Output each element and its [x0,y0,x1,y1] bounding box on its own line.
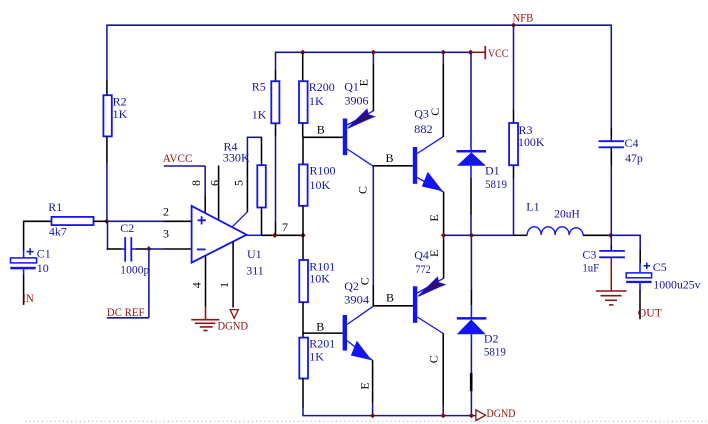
resistor R1 4k7 [48,200,107,238]
wire Q1 collector node column [372,166,374,307]
port DC REF [107,305,145,319]
label Q1 collector C [356,186,370,194]
label net NFB [513,11,534,25]
svg-text:3906: 3906 [345,93,369,107]
svg-text:NFB: NFB [513,11,534,25]
capacitor C4 47p [599,136,643,235]
label Q4 emitter E [427,250,441,257]
svg-text:5: 5 [232,180,246,186]
svg-text:1K: 1K [309,349,324,363]
port OUT [638,306,663,320]
svg-text:OUT: OUT [638,306,663,320]
svg-text:E: E [357,79,371,86]
label Q4 base B [386,291,394,305]
wire R2 to input node [106,163,108,221]
wire node to C3 [610,235,612,251]
label Q1 emitter E [357,79,371,86]
wire Q4 base [373,305,413,307]
op-amp U1 pin 6 [218,166,220,221]
svg-text:47p: 47p [625,151,643,165]
svg-text:R1: R1 [48,200,62,214]
svg-text:1uF: 1uF [582,261,599,275]
label Q2 collector C [357,277,371,285]
node output line D1D2 junction dot [469,233,474,238]
svg-text:VCC: VCC [488,46,508,60]
wire op-amp output pin 7 [261,234,303,236]
svg-text:1K: 1K [309,94,324,108]
label Q2 base B [316,320,324,334]
label pin 8 [189,180,203,186]
svg-text:1K: 1K [113,107,128,121]
svg-text:L1: L1 [526,199,539,213]
wire output node line [444,234,514,236]
svg-text:1K: 1K [252,107,267,121]
node VCC D1 junction dot [468,50,473,55]
svg-text:6: 6 [208,180,222,186]
wire Q4 emitter to output node [443,235,445,278]
node output R100 junction dot [300,233,305,238]
svg-text:C: C [356,186,370,194]
svg-text:10K: 10K [310,178,331,192]
svg-text:C2: C2 [120,221,134,235]
svg-text:1000u25v: 1000u25v [653,277,700,291]
svg-text:772: 772 [415,262,430,276]
inductor L1 20uH [514,199,611,235]
svg-text:1000p: 1000p [120,263,149,277]
wire R3 to output line [513,178,515,235]
svg-text:5819: 5819 [485,177,507,191]
svg-text:E: E [427,250,441,257]
op-amp U1 pin 5 [232,162,247,228]
svg-text:882: 882 [414,122,432,136]
op-amp U1 pin 4 [205,256,207,307]
label pin 6 [208,180,222,186]
wire Q2 base [303,332,343,334]
wire net NFB top rail [107,24,611,26]
svg-text:330K: 330K [223,151,250,165]
resistor R5 1K pull-up [252,52,280,236]
svg-text:C: C [428,108,442,116]
op-amp U1 LM311 [192,206,264,278]
capacitor C2 1000p [120,221,149,277]
svg-text:100K: 100K [518,135,545,149]
node rail Q4 junction dot [441,413,446,418]
svg-text:DGND: DGND [487,406,516,420]
op-amp U1 pin 8 [204,196,206,213]
wire input node down to C2 [107,221,122,249]
svg-text:IN: IN [22,291,34,305]
wire Q4 collector to DGND rail [442,333,444,415]
ground AGND at C3 [596,258,627,305]
wire pin 5 to R4 [247,137,262,162]
wire C2 to pin 3 node [135,248,149,250]
svg-text:R5: R5 [252,80,266,94]
node VCC Q1 junction dot [371,50,376,55]
transistor Q4 772 PNP [413,248,445,333]
wire R1 left lead to C1 [24,221,52,251]
capacitor C3 1uF [582,248,625,275]
wire NFB rail to R2 [106,25,108,81]
diode D2 5819 [457,235,506,415]
svg-text:10K: 10K [309,271,330,285]
wire VCC rail [276,51,471,53]
svg-text:3: 3 [163,226,169,240]
resistor R3 100K [509,123,545,179]
power VCC [471,46,509,60]
resistor R100 10K [299,137,336,235]
op-amp U1 pin 1 [232,242,234,308]
wire Q3 base [373,165,413,167]
wire Q3 emitter to output node [443,192,445,236]
power AVCC [163,151,206,196]
svg-text:20uH: 20uH [554,206,580,220]
power DGND at pin 1 [218,310,249,333]
svg-text:E: E [358,382,372,389]
svg-text:E: E [427,214,441,221]
node L1 C4 junction dot [608,233,613,238]
wire pin 3 node to op-amp pin 3 [149,248,192,250]
resistor R101 10K [299,235,335,333]
node rail D2 junction dot [469,413,474,418]
power DGND port at rail [476,406,516,421]
transistor Q2 2N3904 NPN [343,279,374,361]
diode D1 5819 [457,52,508,235]
svg-text:3904: 3904 [344,293,369,307]
svg-text:D1: D1 [485,164,500,178]
svg-text:C1: C1 [37,247,51,261]
svg-text:AVCC: AVCC [163,151,193,165]
capacitor C1 [10,247,51,275]
label pin 3 [163,226,169,240]
svg-text:C: C [357,277,371,285]
ground AGND at pin 4 [191,306,219,331]
wire C4 column from NFB rail [610,25,612,142]
node output line Q3Q4 junction dot [441,233,446,238]
wire Q3 collector to VCC rail [442,52,444,137]
node output R5 junction dot [272,233,277,238]
wire DGND bottom rail [302,415,476,417]
svg-text:7: 7 [282,220,288,234]
svg-text:U1: U1 [247,247,262,261]
svg-text:R100: R100 [310,163,336,177]
svg-text:B: B [386,291,394,305]
node input junction dot [104,219,109,224]
svg-text:DGND: DGND [218,319,249,333]
node pin 3 junction dot [146,246,151,251]
resistor R2 [103,80,127,163]
node rail Q2 junction dot [370,413,375,418]
svg-text:311: 311 [246,264,264,278]
svg-text:B: B [386,151,394,165]
svg-text:4: 4 [190,282,204,288]
svg-text:C5: C5 [653,260,667,274]
wire input node to op-amp pin 2 [107,220,192,222]
label pin 1 [217,282,231,288]
label Q2 emitter E [358,382,372,389]
port IN [22,291,34,305]
svg-text:Q3: Q3 [414,106,429,120]
label Q3 emitter E [427,214,441,221]
transistor Q1 2N3906 PNP [343,79,374,166]
label pin 4 [190,282,204,288]
svg-text:DC REF: DC REF [107,305,145,319]
wire Q2 emitter to DGND rail [372,360,374,415]
svg-text:8: 8 [189,180,203,186]
node VCC Q3 junction dot [441,50,446,55]
svg-text:4k7: 4k7 [49,224,67,238]
svg-text:C: C [427,355,441,363]
svg-text:1: 1 [217,282,231,288]
svg-text:10: 10 [37,261,49,275]
svg-text:D2: D2 [484,331,499,345]
label Q3 base B [386,151,394,165]
wire output line to C5 column [611,235,641,264]
transistor Q3 882 NPN [413,106,444,192]
label pin 5 [232,180,246,186]
svg-text:R200: R200 [309,80,335,94]
wire C1 to IN port [23,275,25,305]
svg-text:B: B [317,123,325,137]
label pin 7 [282,220,288,234]
resistor R201 1K [299,333,335,416]
label pin 2 [163,204,169,218]
wire DC REF stub [107,249,149,318]
wire NFB column to R3 [513,25,515,124]
resistor R4 330K [223,137,266,235]
node NFB junction dot [511,23,516,28]
wire C5 to OUT port [639,290,641,319]
node VCC R200 junction dot [300,50,305,55]
label Q3 collector C [428,108,442,116]
svg-text:C3: C3 [582,248,596,262]
svg-text:C4: C4 [625,136,639,150]
capacitor C5 1000u25v [626,260,700,291]
svg-text:5819: 5819 [484,345,506,359]
svg-text:2: 2 [163,204,169,218]
label Q1 base B [317,123,325,137]
svg-text:B: B [316,320,324,334]
label Q4 collector C [427,355,441,363]
wire Q1 base [303,136,343,138]
resistor R200 1K [299,52,335,137]
wire Q1 emitter to VCC rail [372,52,374,111]
